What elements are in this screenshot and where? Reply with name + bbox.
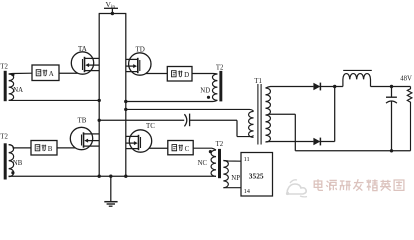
svg-text:TA: TA (78, 45, 87, 53)
svg-text:48V: 48V (400, 75, 412, 82)
svg-text:T2: T2 (216, 64, 224, 71)
svg-text:14: 14 (244, 188, 251, 195)
svg-text:NC: NC (198, 160, 208, 167)
svg-text:NA: NA (13, 87, 23, 94)
svg-text:T2: T2 (0, 133, 8, 140)
svg-text:TD: TD (136, 46, 145, 54)
svg-text:C: C (185, 145, 190, 153)
svg-text:3525: 3525 (249, 171, 264, 180)
svg-text:B: B (48, 145, 53, 153)
svg-text:NP: NP (231, 175, 240, 182)
svg-text:D: D (184, 71, 189, 79)
svg-text:11: 11 (244, 156, 250, 163)
svg-text:TB: TB (78, 117, 87, 125)
svg-text:A: A (49, 70, 54, 78)
svg-text:T2: T2 (216, 141, 224, 148)
svg-text:T2: T2 (0, 63, 8, 70)
svg-text:TC: TC (146, 122, 155, 130)
svg-text:ND: ND (200, 88, 210, 95)
svg-text:NB: NB (13, 160, 23, 167)
